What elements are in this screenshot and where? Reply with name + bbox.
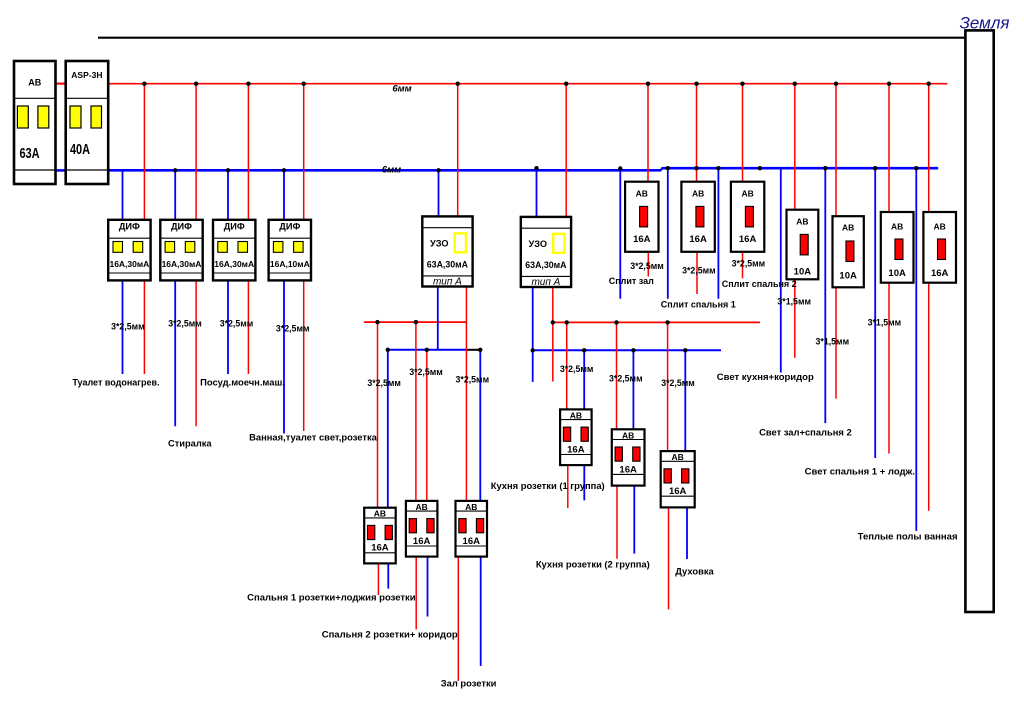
wire: phase drop to breaker Спальня1 (red) <box>377 322 379 508</box>
wire: breaker Свет спальня load phase (red) <box>888 283 890 454</box>
svg-text:Кухня розетки (1 группа): Кухня розетки (1 группа) <box>491 480 605 491</box>
junction on УЗО1 branch phase bus #2 <box>414 320 418 324</box>
wire: breaker Кухня1 load phase (red) <box>567 465 569 508</box>
svg-text:Свет кухня+коридор: Свет кухня+коридор <box>717 372 814 383</box>
svg-text:Ванная,туалет свет,розетка: Ванная,туалет свет,розетка <box>249 432 378 443</box>
junction on УЗО2 branch neutral bus #1 <box>531 348 535 352</box>
breaker АВ 16А (Сплит зал) <box>625 182 658 252</box>
svg-text:16А,10мА: 16А,10мА <box>270 259 310 269</box>
junction on neutral bus N #4 <box>282 168 286 172</box>
junction on УЗО1 branch phase bus #1 <box>375 320 379 324</box>
Зал розетки handle 1 (red) <box>459 519 466 533</box>
Свет зал+спальня 2 handle (red) <box>846 241 854 262</box>
wire: second drop to breaker Спальня2 (red) <box>426 350 428 501</box>
svg-text:ДИФ: ДИФ <box>171 221 192 231</box>
junction on neutral bus N #9 <box>694 166 698 170</box>
wire: phase drop to breaker Сплит спальня 1 (red) <box>696 84 698 182</box>
svg-text:10А: 10А <box>839 271 857 282</box>
svg-text:ASP-3H: ASP-3H <box>71 70 102 80</box>
svg-text:АВ: АВ <box>636 189 648 199</box>
junction on УЗО1 branch neutral bus #3 <box>478 348 482 352</box>
wire: branch bus segment (black) <box>466 349 480 351</box>
svg-text:АВ: АВ <box>741 189 753 199</box>
junction on phase bus L #4 <box>302 82 306 86</box>
wire: PE earth bus (black, top) <box>98 37 967 39</box>
svg-text:63А,30мА: 63А,30мА <box>525 260 567 270</box>
svg-text:Сплит зал: Сплит зал <box>609 276 654 286</box>
wire: breaker Зал load phase (red) <box>457 557 459 681</box>
svg-text:АВ: АВ <box>622 430 634 440</box>
Спальня 2 розетки handle 1 (red) <box>409 519 416 533</box>
wire: УЗО2 phase out (red) <box>552 287 554 381</box>
svg-text:АВ: АВ <box>692 189 704 199</box>
svg-text:АВ: АВ <box>465 502 477 512</box>
junction on phase bus L #5 <box>456 82 460 86</box>
Спальня 1 розетки handle 2 (red) <box>385 525 392 539</box>
wire: phase drop to breaker Кухня1 (red) <box>566 322 568 409</box>
junction on phase bus L #13 <box>927 82 931 86</box>
svg-text:16А,30мА: 16А,30мА <box>214 259 254 269</box>
wire: neutral drop to breaker Духовка (blue) <box>684 350 686 451</box>
junction on УЗО2 branch phase bus #1 <box>551 320 555 324</box>
junction on phase bus L #2 <box>194 82 198 86</box>
wire: breaker Спальня1 load neutral (blue) <box>387 563 389 588</box>
svg-text:Спальня 1 розетки+лоджия розет: Спальня 1 розетки+лоджия розетки <box>247 592 416 603</box>
breaker АВ 10А (Свет спальня 1) <box>881 212 914 283</box>
junction on neutral bus N #3 <box>226 168 230 172</box>
junction on phase bus L #10 <box>793 82 797 86</box>
АВ 63А handle 2 (yellow) <box>38 106 49 128</box>
Кухня розетки 2 handle 1 (red) <box>615 447 622 461</box>
junction on neutral bus N #7 <box>618 166 622 170</box>
svg-text:3*2,5мм: 3*2,5мм <box>276 324 310 334</box>
svg-text:ДИФ: ДИФ <box>224 221 245 231</box>
breaker АВ 16А (Кухня розетки 1) <box>560 409 592 465</box>
wire: branch neutral bus of УЗО1 (blue) <box>388 349 467 351</box>
wire: ДИФ4 load phase (red) <box>303 280 305 431</box>
wire: breaker Кухня1 load neutral (blue) <box>583 465 585 500</box>
svg-text:16А: 16А <box>619 464 637 475</box>
wire: branch phase bus of УЗО2 (red) <box>553 321 760 323</box>
svg-text:63А: 63А <box>19 144 40 161</box>
wire: phase drop to breaker Кухня2 (red) <box>616 322 618 429</box>
svg-text:Земля: Земля <box>959 14 1009 33</box>
Сплит спальня 1 handle (red) <box>696 206 704 227</box>
wire: neutral drop to breaker Зал (blue) <box>479 350 481 501</box>
wire: ДИФ2 load phase (red) <box>195 280 197 426</box>
wire: phase drop to УЗО2 (red) <box>565 84 567 217</box>
svg-text:3*2,5мм: 3*2,5мм <box>630 261 664 271</box>
RCBO ДИФ3 16А,30мА <box>213 220 255 281</box>
wire: phase drop to ДИФ3 (red) <box>247 84 249 220</box>
wire: Сплит спальня 1 neutral (blue) <box>667 168 669 299</box>
wire: breaker Духовка load neutral (blue) <box>686 507 688 559</box>
svg-text:АВ: АВ <box>672 452 684 462</box>
breaker АВ 16А (Теплые полы) <box>923 212 956 283</box>
svg-text:63А,30мА: 63А,30мА <box>427 260 469 270</box>
svg-text:Посуд.моечн.маш.: Посуд.моечн.маш. <box>200 377 285 388</box>
wire: neutral drop to breaker Спальня1 (blue) <box>387 350 389 508</box>
junction on УЗО1 branch neutral bus #2 <box>425 348 429 352</box>
svg-text:Зал розетки: Зал розетки <box>441 678 497 689</box>
junction on phase bus L #11 <box>834 82 838 86</box>
Духовка handle 2 (red) <box>682 469 689 483</box>
wire: neutral drop to УЗО2 (blue) <box>536 168 538 217</box>
wire: ДИФ3 load neutral (blue) <box>227 280 229 374</box>
junction on УЗО2 branch phase bus #3 <box>614 320 618 324</box>
Спальня 2 розетки handle 2 (red) <box>427 519 434 533</box>
svg-text:Стиралка: Стиралка <box>168 439 212 449</box>
svg-text:АВ: АВ <box>28 78 41 88</box>
junction on УЗО2 branch neutral bus #4 <box>683 348 687 352</box>
wire: neutral drop to ДИФ4 (blue) <box>283 170 285 220</box>
svg-text:Свет спальня 1 + лодж.: Свет спальня 1 + лодж. <box>805 466 915 477</box>
svg-text:АВ: АВ <box>934 221 946 231</box>
wire: phase drop to breaker Духовка (red) <box>667 322 669 451</box>
junction on neutral bus N #5 <box>436 168 440 172</box>
svg-text:16А: 16А <box>931 268 949 279</box>
wire: neutral bus N 6мм (blue, horizontal, left part) <box>108 169 661 172</box>
wire: Сплит зал neutral (blue) <box>619 170 621 298</box>
Кухня розетки 2 handle 2 (red) <box>633 447 640 461</box>
svg-text:Сплит спальня 1: Сплит спальня 1 <box>661 300 736 310</box>
wire: breaker Теплые полы load phase (red) <box>928 283 930 511</box>
svg-text:16А: 16А <box>739 234 757 245</box>
junction on phase bus L #9 <box>740 82 744 86</box>
junction on neutral bus N #10 <box>716 166 720 170</box>
svg-text:Теплые полы ванная: Теплые полы ванная <box>858 532 958 543</box>
junction on phase bus L #1 <box>142 82 146 86</box>
svg-text:3*2,5мм: 3*2,5мм <box>168 319 202 329</box>
svg-text:АВ: АВ <box>842 223 854 233</box>
wire: breaker Зал load neutral (blue) <box>480 557 482 666</box>
wire: breaker Сплит зал load phase (red) <box>647 252 649 277</box>
svg-text:Сплит спальня 2: Сплит спальня 2 <box>722 279 797 289</box>
breaker АВ 16А (Сплит спальня 1) <box>681 182 714 252</box>
Свет кухня+коридор handle (red) <box>800 234 808 255</box>
svg-text:40А: 40А <box>70 140 91 157</box>
breaker АВ 10А (Свет зал+спальня 2) <box>833 216 864 287</box>
RCBO ДИФ4 16А,10мА <box>269 220 311 281</box>
svg-text:тип А: тип А <box>531 277 560 288</box>
wire: phase drop to breaker Свет зал (red) <box>835 84 837 217</box>
Сплит зал handle (red) <box>640 206 648 227</box>
svg-text:3*2,5мм: 3*2,5мм <box>732 259 766 269</box>
УЗО2 handle (yellow outline) <box>553 234 564 253</box>
svg-text:АВ: АВ <box>374 509 386 519</box>
surge device ASP-3H 40А <box>66 61 109 184</box>
svg-text:3*1,5мм: 3*1,5мм <box>816 337 850 347</box>
wire: neutral link N between input breakers (blue) <box>56 169 67 172</box>
junction on УЗО2 branch phase bus #2 <box>565 320 569 324</box>
wire: neutral drop to ДИФ1 (blue) <box>122 170 124 220</box>
wire: ДИФ3 load phase (red) <box>247 280 249 374</box>
svg-text:3*1,5мм: 3*1,5мм <box>777 297 811 307</box>
junction on phase bus L #8 <box>694 82 698 86</box>
junction on neutral bus N #6 <box>534 166 538 170</box>
svg-text:АВ: АВ <box>891 221 903 231</box>
wire: phase drop to breaker Сплит зал (red) <box>647 84 649 182</box>
wire: phase drop to ДИФ2 (red) <box>195 84 197 220</box>
svg-text:тип А: тип А <box>433 277 462 288</box>
wire: Свет зал neutral (blue) <box>824 168 826 423</box>
svg-text:3*2,5мм: 3*2,5мм <box>661 378 695 388</box>
wire: Свет кухня neutral (blue) <box>780 168 782 372</box>
Сплит спальня 2 handle (red) <box>745 206 753 227</box>
svg-text:16А: 16А <box>567 444 585 455</box>
Духовка handle 1 (red) <box>664 469 671 483</box>
Кухня розетки 1 handle 2 (red) <box>581 427 588 441</box>
svg-text:Туалет водонагрев.: Туалет водонагрев. <box>72 378 159 388</box>
junction on УЗО2 branch neutral bus #3 <box>631 348 635 352</box>
svg-text:Духовка: Духовка <box>675 565 714 576</box>
breaker АВ 10А (Свет кухня+коридор) <box>787 210 819 280</box>
svg-text:16А: 16А <box>371 543 389 554</box>
wire: phase drop to breaker Сплит спальня 2 (red) <box>742 84 744 182</box>
svg-text:3*2,5мм: 3*2,5мм <box>456 375 490 385</box>
breaker АВ 16А (Кухня розетки 2) <box>612 429 645 485</box>
svg-text:16А: 16А <box>463 536 481 547</box>
wire: neutral bus jog <box>661 168 663 170</box>
Свет спальня 1 handle (red) <box>895 239 903 260</box>
wire: phase bus L 6мм (red, horizontal) <box>108 83 947 85</box>
wire: phase link L1 between input breakers (red) <box>56 82 67 84</box>
wire: phase drop to breaker Свет спальня (red) <box>888 84 890 212</box>
breaker АВ 16А (Спальня 2 розетки) <box>406 501 438 557</box>
wire: phase drop to breaker Теплые полы (red) <box>928 84 930 212</box>
wire: ДИФ1 load neutral (blue) <box>122 280 124 374</box>
svg-text:Кухня розетки (2 группа): Кухня розетки (2 группа) <box>536 558 650 569</box>
wire: phase drop to breaker Спальня2 (red) <box>415 322 417 501</box>
junction on neutral bus N #12 <box>823 166 827 170</box>
wire: УЗО2 neutral out (blue) <box>532 287 534 382</box>
junction on neutral bus N #11 <box>758 166 762 170</box>
RCBO ДИФ2 16А,30мА <box>160 220 202 281</box>
svg-text:10А: 10А <box>888 268 906 279</box>
junction on neutral bus N #8 <box>666 166 670 170</box>
Спальня 1 розетки handle 1 (red) <box>368 525 375 539</box>
svg-text:ДИФ: ДИФ <box>279 221 300 231</box>
АВ 63А handle 1 (yellow) <box>17 106 28 128</box>
ground bus bar (Земля) <box>965 30 993 612</box>
svg-text:ДИФ: ДИФ <box>119 221 140 231</box>
wire: УЗО1 neutral out (blue) <box>437 287 439 350</box>
wire: УЗО1 phase out to breaker (red) <box>465 287 467 501</box>
Теплые полы handle (red) <box>938 239 946 260</box>
svg-text:3*2,5мм: 3*2,5мм <box>409 367 443 377</box>
wire: breaker Сплит спальня 2 load phase (red) <box>742 252 744 278</box>
svg-text:16А: 16А <box>413 536 431 547</box>
junction on phase bus L #3 <box>246 82 250 86</box>
svg-text:АВ: АВ <box>570 410 582 420</box>
wire: phase drop to ДИФ1 (red) <box>143 84 145 220</box>
svg-text:УЗО: УЗО <box>430 239 449 249</box>
wire: Сплит спальня 2 neutral (blue) <box>717 168 719 299</box>
breaker АВ 16А (Духовка) <box>661 451 695 507</box>
svg-text:Свет зал+спальня 2: Свет зал+спальня 2 <box>759 427 852 438</box>
wire: phase drop to УЗО1 (red) <box>457 84 459 217</box>
wire: breaker Кухня2 load phase (red) <box>616 486 618 559</box>
wire: Свет спальня neutral (blue) <box>874 168 876 458</box>
junction on phase bus L #7 <box>646 82 650 86</box>
wire: neutral drop to УЗО1 (blue) <box>438 170 440 216</box>
wire: branch phase bus of УЗО1 (red) <box>364 321 467 323</box>
RCD УЗО1 63А,30мА тип А <box>422 216 472 286</box>
svg-text:АВ: АВ <box>796 216 808 226</box>
svg-text:3*2,5мм: 3*2,5мм <box>609 373 643 383</box>
wire: breaker Спальня2 load neutral (blue) <box>427 557 429 617</box>
RCD УЗО2 63А,30мА тип А <box>521 217 571 287</box>
wire: neutral bus N (blue, horizontal, right part) <box>662 167 939 170</box>
svg-text:3*1,5мм: 3*1,5мм <box>868 318 902 328</box>
junction on neutral bus N #13 <box>873 166 877 170</box>
junction on phase bus L #12 <box>887 82 891 86</box>
junction on УЗО2 branch phase bus #4 <box>665 320 669 324</box>
wire: ДИФ1 load phase (red) <box>143 280 145 374</box>
wire: neutral drop to breaker Кухня2 (blue) <box>632 350 634 429</box>
junction on phase bus L #6 <box>564 82 568 86</box>
breaker АВ 16А (Зал розетки) <box>456 501 488 557</box>
wire: neutral drop to ДИФ3 (blue) <box>227 170 229 220</box>
wire: ДИФ4 load neutral (blue) <box>283 280 285 433</box>
junction on neutral bus N #14 <box>914 166 918 170</box>
svg-text:10А: 10А <box>794 266 812 277</box>
junction on УЗО1 branch neutral bus #1 <box>386 348 390 352</box>
wire: ДИФ2 load neutral (blue) <box>174 280 176 426</box>
svg-text:3*2,5мм: 3*2,5мм <box>111 322 145 332</box>
svg-text:Спальня 2 розетки+ коридор: Спальня 2 розетки+ коридор <box>322 630 458 641</box>
junction on УЗО2 branch neutral bus #2 <box>582 348 586 352</box>
breaker АВ 16А (Сплит спальня 2) <box>731 182 764 252</box>
wire: phase drop to ДИФ4 (red) <box>303 84 305 220</box>
svg-text:УЗО: УЗО <box>529 239 548 249</box>
wire: neutral drop to ДИФ2 (blue) <box>174 170 176 220</box>
svg-text:6мм: 6мм <box>382 165 401 176</box>
wire: breaker Спальня2 load phase (red) <box>415 557 417 630</box>
wire: branch neutral bus of УЗО2 (blue) <box>533 349 721 351</box>
wire: breaker Духовка load phase (red) <box>668 507 670 609</box>
svg-text:16А,30мА: 16А,30мА <box>162 259 202 269</box>
svg-text:3*2,5мм: 3*2,5мм <box>560 364 594 374</box>
svg-text:3*2,5мм: 3*2,5мм <box>682 266 716 276</box>
wire: breaker Свет зал load phase (red) <box>835 287 837 398</box>
breaker АВ 16А (Спальня 1 розетки) <box>364 508 396 564</box>
svg-text:3*2,5мм: 3*2,5мм <box>220 319 254 329</box>
wire: breaker Свет кухня load phase (red) <box>794 279 796 358</box>
svg-text:16А,30мА: 16А,30мА <box>109 259 149 269</box>
wire: breaker Спальня1 load phase (red) <box>377 563 379 595</box>
wire: phase drop to breaker Свет кухня (red) <box>794 84 796 210</box>
breaker АВ 63А (input, left) <box>14 61 56 184</box>
УЗО1 handle (yellow outline) <box>455 233 466 252</box>
wire: neutral drop to breaker Кухня1 (blue) <box>583 350 585 409</box>
svg-text:АВ: АВ <box>416 502 428 512</box>
ASP-3H handle 2 (yellow) <box>91 106 102 128</box>
svg-text:16А: 16А <box>669 486 687 497</box>
svg-text:3*2,5мм: 3*2,5мм <box>367 378 401 388</box>
wire: Теплые полы neutral (blue) <box>915 168 917 531</box>
Зал розетки handle 2 (red) <box>476 519 483 533</box>
Кухня розетки 1 handle 1 (red) <box>563 427 570 441</box>
RCBO ДИФ1 16А,30мА <box>108 220 150 281</box>
wire: breaker Сплит спальня 1 load phase (red) <box>696 252 698 294</box>
svg-text:16А: 16А <box>633 234 651 245</box>
svg-text:6мм: 6мм <box>392 84 411 95</box>
junction on neutral bus N #1 <box>105 168 109 172</box>
junction on neutral bus N #2 <box>173 168 177 172</box>
wire: breaker Кухня2 load neutral (blue) <box>633 486 635 554</box>
ASP-3H handle 1 (yellow) <box>70 106 81 128</box>
svg-text:16А: 16А <box>689 234 707 245</box>
